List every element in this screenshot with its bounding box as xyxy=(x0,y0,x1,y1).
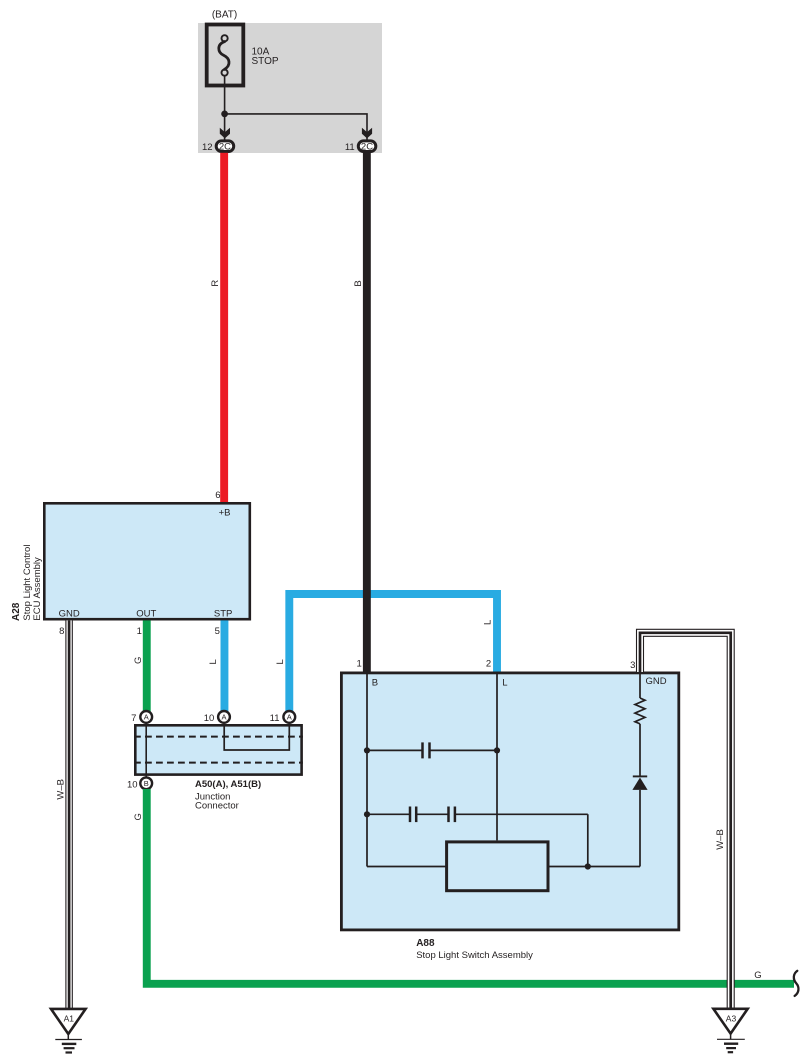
capacitor C2 xyxy=(410,807,416,823)
svg-text:2: 2 xyxy=(486,658,491,669)
junction connector dashed row 2 xyxy=(134,762,303,764)
wire B black: 2C pin 11 to A88 pin 1 xyxy=(363,153,371,672)
svg-text:L: L xyxy=(275,659,286,664)
A88 internal wire: GND pin to resistor xyxy=(639,672,641,698)
A88 internal switch block xyxy=(447,842,548,891)
wire fuse output down to node xyxy=(224,76,226,114)
svg-text:A28: A28 xyxy=(11,602,22,621)
junction node dot xyxy=(221,111,228,118)
svg-text:Connector: Connector xyxy=(195,801,239,812)
ground A3 xyxy=(713,1009,747,1052)
svg-text:B: B xyxy=(353,280,364,286)
svg-text:7: 7 xyxy=(131,713,136,724)
junction terminal 7A xyxy=(140,711,152,723)
junction terminal 10A xyxy=(218,711,230,723)
svg-text:6: 6 xyxy=(215,490,220,501)
svg-text:A: A xyxy=(221,713,226,722)
svg-text:(BAT): (BAT) xyxy=(212,10,237,21)
svg-text:G: G xyxy=(133,657,144,664)
resistor R1 xyxy=(635,698,645,724)
svg-text:A50(A), A51(B): A50(A), A51(B) xyxy=(195,779,261,790)
node dot L-C1 xyxy=(494,747,500,753)
junction connector dashed row 1 xyxy=(134,736,303,738)
junction internal pass-through wire 7A to 10B xyxy=(145,722,147,778)
junction terminal 10B xyxy=(140,777,152,789)
svg-text:STOP: STOP xyxy=(252,56,279,67)
A88 internal wire: resistor to diode xyxy=(639,724,641,776)
A88 internal wire: diode to bottom rail xyxy=(639,790,641,867)
svg-text:8: 8 xyxy=(59,626,64,637)
A88 internal wire: B net vertical xyxy=(366,672,368,867)
continuation break symbol xyxy=(794,971,799,996)
node dot switch-GND xyxy=(585,863,591,869)
svg-text:1: 1 xyxy=(357,658,362,669)
svg-text:A: A xyxy=(287,713,292,722)
svg-text:W–B: W–B xyxy=(56,779,67,800)
label A28 Stop Light Control ECU Assembly xyxy=(11,545,43,621)
svg-text:1: 1 xyxy=(137,626,142,637)
wire W-B: A28 GND pin 8 to ground A1 xyxy=(66,620,72,1008)
svg-text:GND: GND xyxy=(646,676,667,687)
svg-text:G: G xyxy=(754,970,761,981)
capacitor C3 xyxy=(449,807,455,823)
wire L blue: junction 11A up and over to A88 pin 2 xyxy=(289,594,497,712)
A88 internal wire: switch right to GND branch xyxy=(550,866,641,868)
node dot B-C2 xyxy=(364,811,370,817)
switch assembly A88 box xyxy=(341,673,678,930)
A88 internal wire: L net vertical xyxy=(496,672,498,840)
svg-text:A: A xyxy=(144,713,149,722)
svg-text:ECU Assembly: ECU Assembly xyxy=(32,557,43,621)
A88 internal wire: B net bottom to switch xyxy=(367,866,446,868)
ground A1 xyxy=(51,1009,86,1053)
junction connector A50/A51 box xyxy=(135,725,301,774)
capacitor C2/C3 leads xyxy=(367,814,588,866)
battery feed block (gray) xyxy=(198,23,382,153)
svg-text:11: 11 xyxy=(345,142,355,153)
diode D1 xyxy=(632,776,647,790)
svg-text:A3: A3 xyxy=(726,1013,737,1023)
node dot B-C1 xyxy=(364,747,370,753)
connector 2C pin 11 xyxy=(358,141,376,153)
svg-text:2C: 2C xyxy=(361,142,373,153)
svg-text:5: 5 xyxy=(215,626,220,637)
junction internal bus 10A to 11A xyxy=(224,725,289,751)
svg-text:W–B: W–B xyxy=(715,829,726,850)
svg-text:R: R xyxy=(210,280,221,287)
svg-text:OUT: OUT xyxy=(136,608,156,619)
ECU box A28 xyxy=(44,503,250,619)
svg-text:2C: 2C xyxy=(219,142,231,153)
svg-text:+B: +B xyxy=(219,507,231,518)
fuse F 10A STOP xyxy=(207,25,244,86)
svg-text:G: G xyxy=(133,813,144,820)
svg-text:10: 10 xyxy=(127,779,138,790)
label A88 Stop Light Switch Assembly xyxy=(416,938,533,961)
svg-text:B: B xyxy=(372,678,378,689)
svg-text:B: B xyxy=(144,779,149,788)
wire R red: 2C pin 12 to A28 pin 6 (+B) xyxy=(220,153,228,503)
capacitor C1 leads xyxy=(367,749,497,751)
svg-text:L: L xyxy=(502,678,507,689)
arrow into pin 12 xyxy=(220,128,230,139)
svg-text:L: L xyxy=(208,659,219,664)
wire G green: A28 OUT pin 1 to junction 7A xyxy=(143,620,151,712)
capacitor C1 xyxy=(423,742,430,758)
svg-text:10: 10 xyxy=(204,713,215,724)
connector 2C pin 12 xyxy=(216,141,234,153)
arrow into pin 11 xyxy=(362,128,372,139)
svg-text:12: 12 xyxy=(202,142,213,153)
svg-text:3: 3 xyxy=(630,660,635,671)
junction terminal 11A xyxy=(283,711,295,723)
wire W-B: A88 GND pin 3 to ground A3 xyxy=(637,629,735,1009)
svg-text:L: L xyxy=(482,620,493,625)
wire G green: junction 10B down and right to ground rail xyxy=(147,789,794,984)
svg-text:STP: STP xyxy=(214,608,232,619)
svg-text:11: 11 xyxy=(270,713,280,724)
wire L blue: A28 STP pin 5 to junction 10A xyxy=(221,620,229,712)
svg-text:A88: A88 xyxy=(416,938,435,949)
wire node to pin 11 branch xyxy=(225,114,367,140)
svg-text:Stop Light Switch Assembly: Stop Light Switch Assembly xyxy=(416,950,533,961)
wire node down to pin 12 xyxy=(224,114,226,140)
label A50(A), A51(B) Junction Connector xyxy=(195,779,261,812)
svg-text:A1: A1 xyxy=(64,1014,75,1024)
svg-text:GND: GND xyxy=(59,608,80,619)
